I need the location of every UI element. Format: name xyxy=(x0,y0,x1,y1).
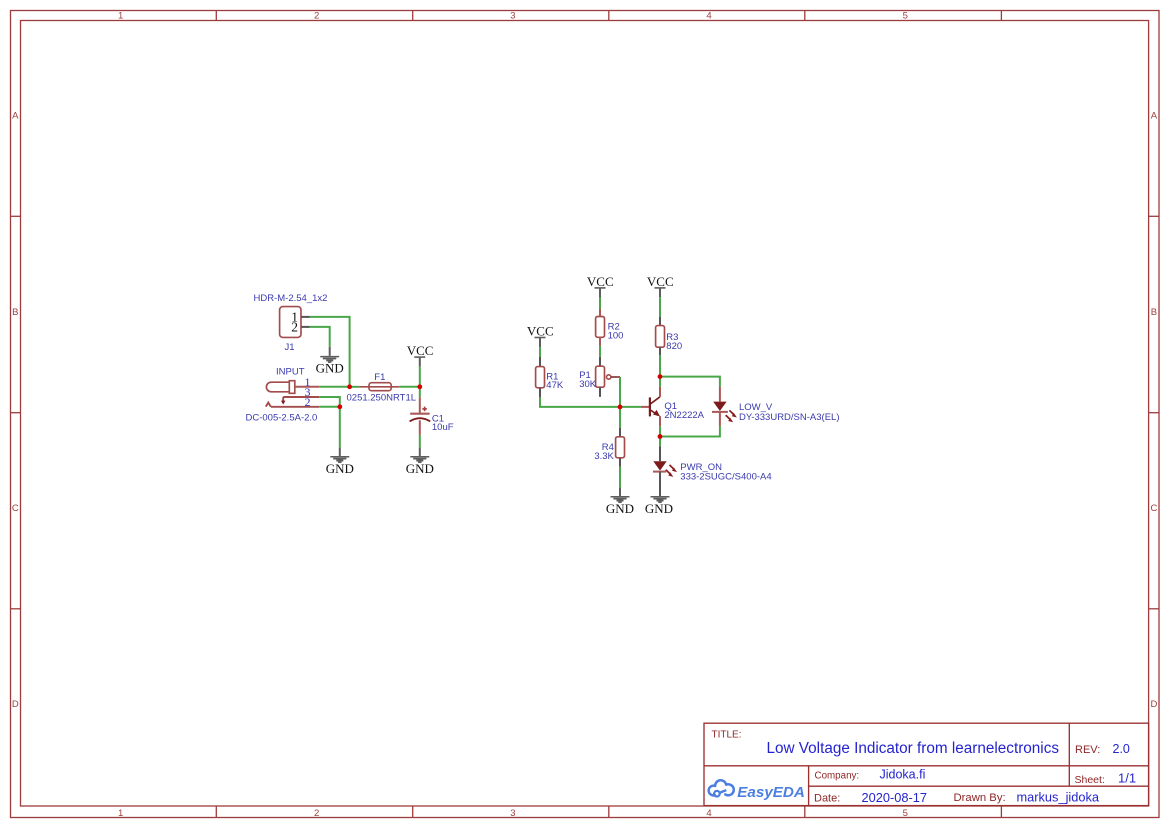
junction base node xyxy=(618,405,623,410)
wire R4 to GND xyxy=(619,467,621,488)
column tick bottom 3|4 xyxy=(608,806,610,818)
title block divider logo cell xyxy=(808,766,810,806)
column tick bottom 2|3 xyxy=(412,806,414,818)
title block divider under title row xyxy=(704,765,1149,767)
svg-text:GND: GND xyxy=(326,461,354,476)
capacitor C1 xyxy=(410,387,431,435)
ground flag under DC jack xyxy=(330,448,349,463)
wire J1 pin2 to GND xyxy=(310,327,330,347)
svg-text:Company:: Company: xyxy=(815,770,860,781)
junction node VCC1 xyxy=(417,384,422,389)
wire jack pin2 to GND xyxy=(319,407,340,448)
VCC flag over R3 xyxy=(647,274,674,297)
svg-text:F1: F1 xyxy=(374,372,385,383)
DC jack pin 2 line with caret xyxy=(266,403,319,407)
junction jack pins 2-3 xyxy=(337,404,342,409)
svg-text:D: D xyxy=(12,699,19,710)
ground flag under R4 xyxy=(611,488,630,503)
ground flag under PWR_ON xyxy=(651,497,670,503)
svg-text:2: 2 xyxy=(314,808,319,819)
svg-text:VCC: VCC xyxy=(407,343,434,358)
column tick bottom 4|5 xyxy=(804,806,806,818)
DC jack J? barrel xyxy=(266,381,294,394)
wire Q1 emitter down xyxy=(659,426,661,436)
wire jack pin1 to node F1A xyxy=(319,386,349,388)
ground flag under C1 xyxy=(410,448,429,463)
column tick top 4|5 xyxy=(804,11,806,21)
svg-text:1/1: 1/1 xyxy=(1118,771,1136,786)
svg-text:C: C xyxy=(12,503,19,514)
svg-text:B: B xyxy=(1151,307,1157,318)
svg-text:DC-005-2.5A-2.0: DC-005-2.5A-2.0 xyxy=(246,412,318,423)
wire fuse to node VCC1 xyxy=(399,386,420,388)
svg-text:47K: 47K xyxy=(546,380,564,391)
svg-text:A: A xyxy=(12,111,19,122)
wire node F1A to fuse xyxy=(350,386,359,388)
row tick right C|D xyxy=(1149,608,1159,610)
wire emitter node down xyxy=(659,437,661,447)
wire P1 wiper to base node xyxy=(619,377,621,407)
svg-text:2: 2 xyxy=(314,11,319,22)
resistor R2 xyxy=(596,309,605,346)
svg-text:0251.250NRT1L: 0251.250NRT1L xyxy=(347,393,417,404)
junction node F1A xyxy=(347,384,352,389)
svg-text:333-2SUGC/S400-A4: 333-2SUGC/S400-A4 xyxy=(680,472,771,483)
connector J1 body xyxy=(280,307,301,338)
title block divider rev/sheet column xyxy=(1068,723,1070,786)
svg-text:VCC: VCC xyxy=(587,274,614,289)
column tick top 1|2 xyxy=(215,11,217,21)
svg-text:10uF: 10uF xyxy=(432,422,454,433)
svg-text:2: 2 xyxy=(291,320,298,335)
svg-text:4: 4 xyxy=(706,808,711,819)
svg-text:HDR-M-2.54_1x2: HDR-M-2.54_1x2 xyxy=(254,293,328,304)
svg-text:820: 820 xyxy=(666,341,682,352)
row tick right B|C xyxy=(1149,412,1159,414)
DC jack pin 3 line with switch arrow xyxy=(283,397,319,402)
wire VCC to R3 xyxy=(659,297,661,317)
resistor R4 xyxy=(616,428,625,467)
J1 pin 1 stub xyxy=(301,316,310,318)
svg-text:3: 3 xyxy=(510,808,515,819)
svg-text:VCC: VCC xyxy=(647,274,674,289)
VCC flag over C1 xyxy=(407,343,434,366)
row tick right A|B xyxy=(1149,215,1159,217)
svg-text:100: 100 xyxy=(608,330,624,341)
row tick left A|B xyxy=(11,215,21,217)
svg-text:2: 2 xyxy=(305,395,311,409)
svg-text:C: C xyxy=(1150,503,1157,514)
wire base node to Q1 base xyxy=(620,406,641,408)
svg-text:INPUT: INPUT xyxy=(276,367,305,378)
svg-text:J1: J1 xyxy=(285,342,295,353)
easyeda logo xyxy=(709,780,805,801)
svg-text:VCC: VCC xyxy=(527,324,554,339)
svg-text:D: D xyxy=(1150,699,1157,710)
svg-text:5: 5 xyxy=(903,808,908,819)
potentiometer P1 xyxy=(596,357,620,397)
VCC flag over R2 xyxy=(587,274,614,298)
wire LED LOW_V to emitter node xyxy=(660,426,720,437)
svg-text:Jidoka.fi: Jidoka.fi xyxy=(880,768,926,782)
wire J1 pin1 to node F1A xyxy=(310,317,350,387)
svg-text:TITLE:: TITLE: xyxy=(712,730,742,741)
wire base node to R4 xyxy=(619,407,621,428)
TITLEBLOCK xyxy=(704,723,1149,805)
transistor Q1 xyxy=(641,387,660,427)
wire Q1 collector up xyxy=(659,377,661,387)
svg-text:B: B xyxy=(12,307,18,318)
junction emitter node xyxy=(658,434,663,439)
DC jack pin3 arrowhead xyxy=(281,401,285,405)
svg-text:Drawn By:: Drawn By: xyxy=(954,792,1006,804)
wire VCC to R1 xyxy=(539,347,541,357)
ground flag under J1 pin2 xyxy=(320,347,339,362)
svg-text:Sheet:: Sheet: xyxy=(1075,774,1105,786)
resistor R3 xyxy=(656,317,665,355)
svg-text:GND: GND xyxy=(645,501,673,516)
svg-text:2020-08-17: 2020-08-17 xyxy=(862,790,927,805)
svg-text:2.0: 2.0 xyxy=(1113,742,1130,756)
svg-text:Date:: Date: xyxy=(814,793,840,805)
svg-text:1: 1 xyxy=(118,808,123,819)
svg-text:Low Voltage Indicator from lea: Low Voltage Indicator from learnelectron… xyxy=(767,740,1060,757)
column tick top 2|3 xyxy=(412,11,414,21)
svg-text:3: 3 xyxy=(510,11,515,22)
row tick left B|C xyxy=(11,412,21,414)
title block divider company/date xyxy=(809,785,1149,787)
title block outline xyxy=(704,723,1149,805)
DC jack pin 1 line xyxy=(295,386,319,388)
VCC flag over R1 xyxy=(527,324,554,348)
svg-text:30K: 30K xyxy=(579,379,597,390)
wire R3 to collector node xyxy=(659,355,661,376)
wire VCC flag to node VCC1 xyxy=(419,367,421,387)
row tick left C|D xyxy=(11,608,21,610)
resistor R1 xyxy=(536,357,545,397)
wire R2 to P1 xyxy=(599,346,601,357)
svg-text:4: 4 xyxy=(706,11,711,22)
J1 pin 2 stub xyxy=(301,326,310,328)
svg-text:DY-333URD/SN-A3(EL): DY-333URD/SN-A3(EL) xyxy=(739,412,840,423)
svg-text:2N2222A: 2N2222A xyxy=(664,410,704,421)
wire collector node to LED LOW_V xyxy=(660,377,720,387)
svg-text:GND: GND xyxy=(606,501,634,516)
wire C1 to GND xyxy=(419,435,421,448)
CIRCUIT xyxy=(246,274,840,516)
column tick bottom 5|6 xyxy=(1000,806,1002,818)
wire R1 to base node xyxy=(540,397,620,407)
column tick bottom 1|2 xyxy=(215,806,217,818)
svg-text:markus_jidoka: markus_jidoka xyxy=(1017,790,1100,805)
svg-text:EasyEDA: EasyEDA xyxy=(737,784,805,801)
svg-text:A: A xyxy=(1151,111,1158,122)
svg-text:GND: GND xyxy=(406,461,434,476)
column tick top 5|6 xyxy=(1000,11,1002,21)
LED PWR_ON emission arrows xyxy=(666,465,675,475)
svg-text:5: 5 xyxy=(903,11,908,22)
svg-text:GND: GND xyxy=(316,360,344,375)
svg-text:3.3K: 3.3K xyxy=(594,451,614,462)
svg-text:REV:: REV: xyxy=(1075,744,1100,756)
junction collector node xyxy=(658,374,663,379)
fuse F1 xyxy=(359,383,399,391)
LED LOW_V xyxy=(712,387,728,426)
svg-text:1: 1 xyxy=(118,11,123,22)
wire VCC to R2 xyxy=(599,298,601,309)
LED PWR_ON xyxy=(653,446,667,496)
wire jack pin3 down xyxy=(319,397,340,407)
LED LOW_V emission arrows xyxy=(726,410,735,420)
column tick top 3|4 xyxy=(608,11,610,21)
